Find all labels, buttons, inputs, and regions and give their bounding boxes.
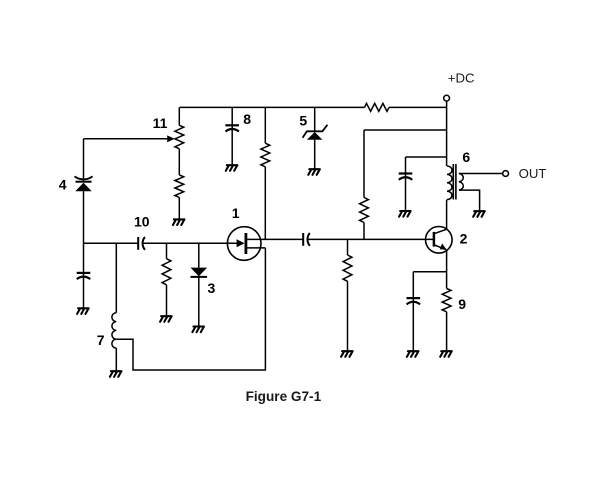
wire cap C-N to rail	[406, 157, 447, 211]
wire pot middle	[178, 149, 180, 175]
wire inductor top	[115, 243, 117, 312]
svg-text:6: 6	[462, 149, 470, 165]
wire resistor R-E top	[347, 239, 349, 255]
wire resistor R-C top	[166, 243, 168, 258]
varactor D4 arc plate	[75, 176, 93, 179]
wire resistor 9 top	[446, 272, 448, 289]
svg-text:7: 7	[97, 332, 105, 348]
capacitor C-P top plate	[407, 297, 421, 299]
wire resistor 9 to ground	[446, 312, 448, 351]
varactor D4 triangle	[75, 183, 91, 192]
capacitor C-L top plate	[77, 272, 91, 274]
wire resistor R-F bottom	[363, 223, 365, 240]
wire zener 5 to ground	[314, 140, 316, 170]
wire secondary to OUT	[459, 173, 503, 175]
transformer 6 secondary winding	[459, 174, 463, 191]
wire diode 3 to ground	[198, 277, 200, 327]
capacitor C-L curved plate	[77, 277, 90, 280]
svg-text:11: 11	[153, 115, 168, 131]
ground resistor R-C	[160, 316, 172, 322]
ground cap C-N	[399, 211, 411, 217]
terminal +DC	[444, 95, 450, 101]
wire varactor to gate line	[83, 191, 85, 308]
transistor Q2 emitter lead	[434, 245, 446, 250]
resistor R-B below pot	[175, 175, 184, 198]
transistor Q2 collector lead	[434, 229, 446, 233]
transistor Q2 base bar	[433, 232, 436, 247]
capacitor C-P curved plate	[407, 302, 420, 305]
transistor Q1 source lead	[247, 247, 266, 249]
diode 3 triangle	[191, 268, 208, 277]
wire secondary to ground	[459, 190, 480, 211]
capacitor 10 left plate	[137, 237, 139, 250]
wire pot top	[178, 107, 180, 125]
wire base line	[308, 238, 434, 240]
zener 5 cathode bar	[303, 125, 328, 138]
ground cap C-L	[77, 308, 89, 314]
capacitor C-N curved plate	[399, 177, 412, 180]
zener 5 triangle	[307, 132, 323, 140]
ground resistor R-E	[341, 351, 353, 357]
capacitor 10 curved plate	[143, 237, 145, 250]
varactor D4 cathode bar	[76, 181, 92, 183]
svg-text:1: 1	[232, 205, 240, 221]
transistor Q1 circle	[227, 227, 261, 261]
capacitor C-M curved plate	[307, 233, 309, 246]
wire bypass cap column	[412, 272, 414, 351]
wire diode 3 top	[198, 243, 200, 267]
wire resistor R-D top	[264, 107, 266, 143]
svg-text:4: 4	[59, 176, 67, 192]
wire top supply rail	[180, 106, 447, 108]
transistor Q1 gate arrowhead	[237, 239, 245, 247]
wire cap 8 column	[231, 107, 233, 165]
wire gate line left	[84, 242, 139, 244]
transistor Q2 circle	[426, 227, 453, 254]
svg-text:10: 10	[134, 213, 150, 229]
ground diode 3	[192, 327, 204, 333]
wire rail2 feedback	[364, 130, 447, 198]
transistor Q1 channel bar	[244, 233, 247, 254]
capacitor C-N top plate	[399, 172, 413, 174]
transistor Q1 drain lead	[247, 238, 304, 240]
wire pot to ground	[178, 197, 180, 219]
wire +DC stub	[446, 101, 448, 166]
ground inductor 7	[110, 371, 122, 377]
wire primary to collector	[446, 200, 448, 230]
wire collector down	[446, 250, 448, 272]
ground zener 5	[308, 169, 320, 175]
wire inductor tap to source	[116, 248, 265, 370]
svg-text:9: 9	[458, 296, 466, 312]
wire gate line right	[143, 242, 238, 244]
svg-text:+DC: +DC	[448, 70, 475, 85]
ground resistor 9	[440, 351, 452, 357]
wire resistor R-C to ground	[166, 285, 168, 316]
wire resistor R-E bottom	[347, 281, 349, 351]
resistor R-F base feed	[360, 198, 369, 223]
svg-text:3: 3	[208, 280, 216, 296]
ground cap 8	[226, 165, 238, 171]
ground secondary	[473, 211, 485, 217]
capacitor C-M left plate	[302, 233, 304, 246]
transformer 6 primary winding	[447, 166, 452, 200]
svg-text:2: 2	[460, 230, 468, 246]
wire wiper feedback	[84, 138, 170, 140]
wire resistor R-D bottom	[264, 167, 266, 240]
wire emitter node	[413, 271, 446, 273]
ground pot 11	[173, 219, 185, 225]
wire zener 5 top	[314, 107, 316, 131]
svg-text:5: 5	[299, 112, 307, 128]
capacitor 8 top plate	[225, 124, 239, 126]
transistor Q2 emitter arrowhead	[440, 243, 447, 249]
diode 3 cathode bar	[191, 276, 208, 278]
wiper arrowhead	[167, 135, 174, 142]
svg-text:Figure G7-1: Figure G7-1	[246, 389, 322, 404]
resistor 9 emitter	[442, 289, 451, 312]
svg-text:OUT: OUT	[519, 166, 547, 181]
svg-text:8: 8	[243, 111, 251, 127]
wire inductor to ground	[115, 348, 117, 371]
resistor R-E base to ground	[343, 255, 352, 281]
resistor R-A series +DC feed	[365, 103, 390, 111]
wire varactor top	[83, 139, 85, 182]
potentiometer 11 element	[175, 125, 184, 148]
terminal OUT	[503, 171, 509, 177]
ground bypass cap	[407, 351, 419, 357]
resistor R-D drain load	[261, 143, 270, 167]
inductor 7 coil	[112, 313, 116, 348]
capacitor 8 curved plate	[226, 129, 239, 132]
resistor R-C gate leak	[162, 259, 171, 285]
transformer 6 core	[453, 164, 456, 200]
